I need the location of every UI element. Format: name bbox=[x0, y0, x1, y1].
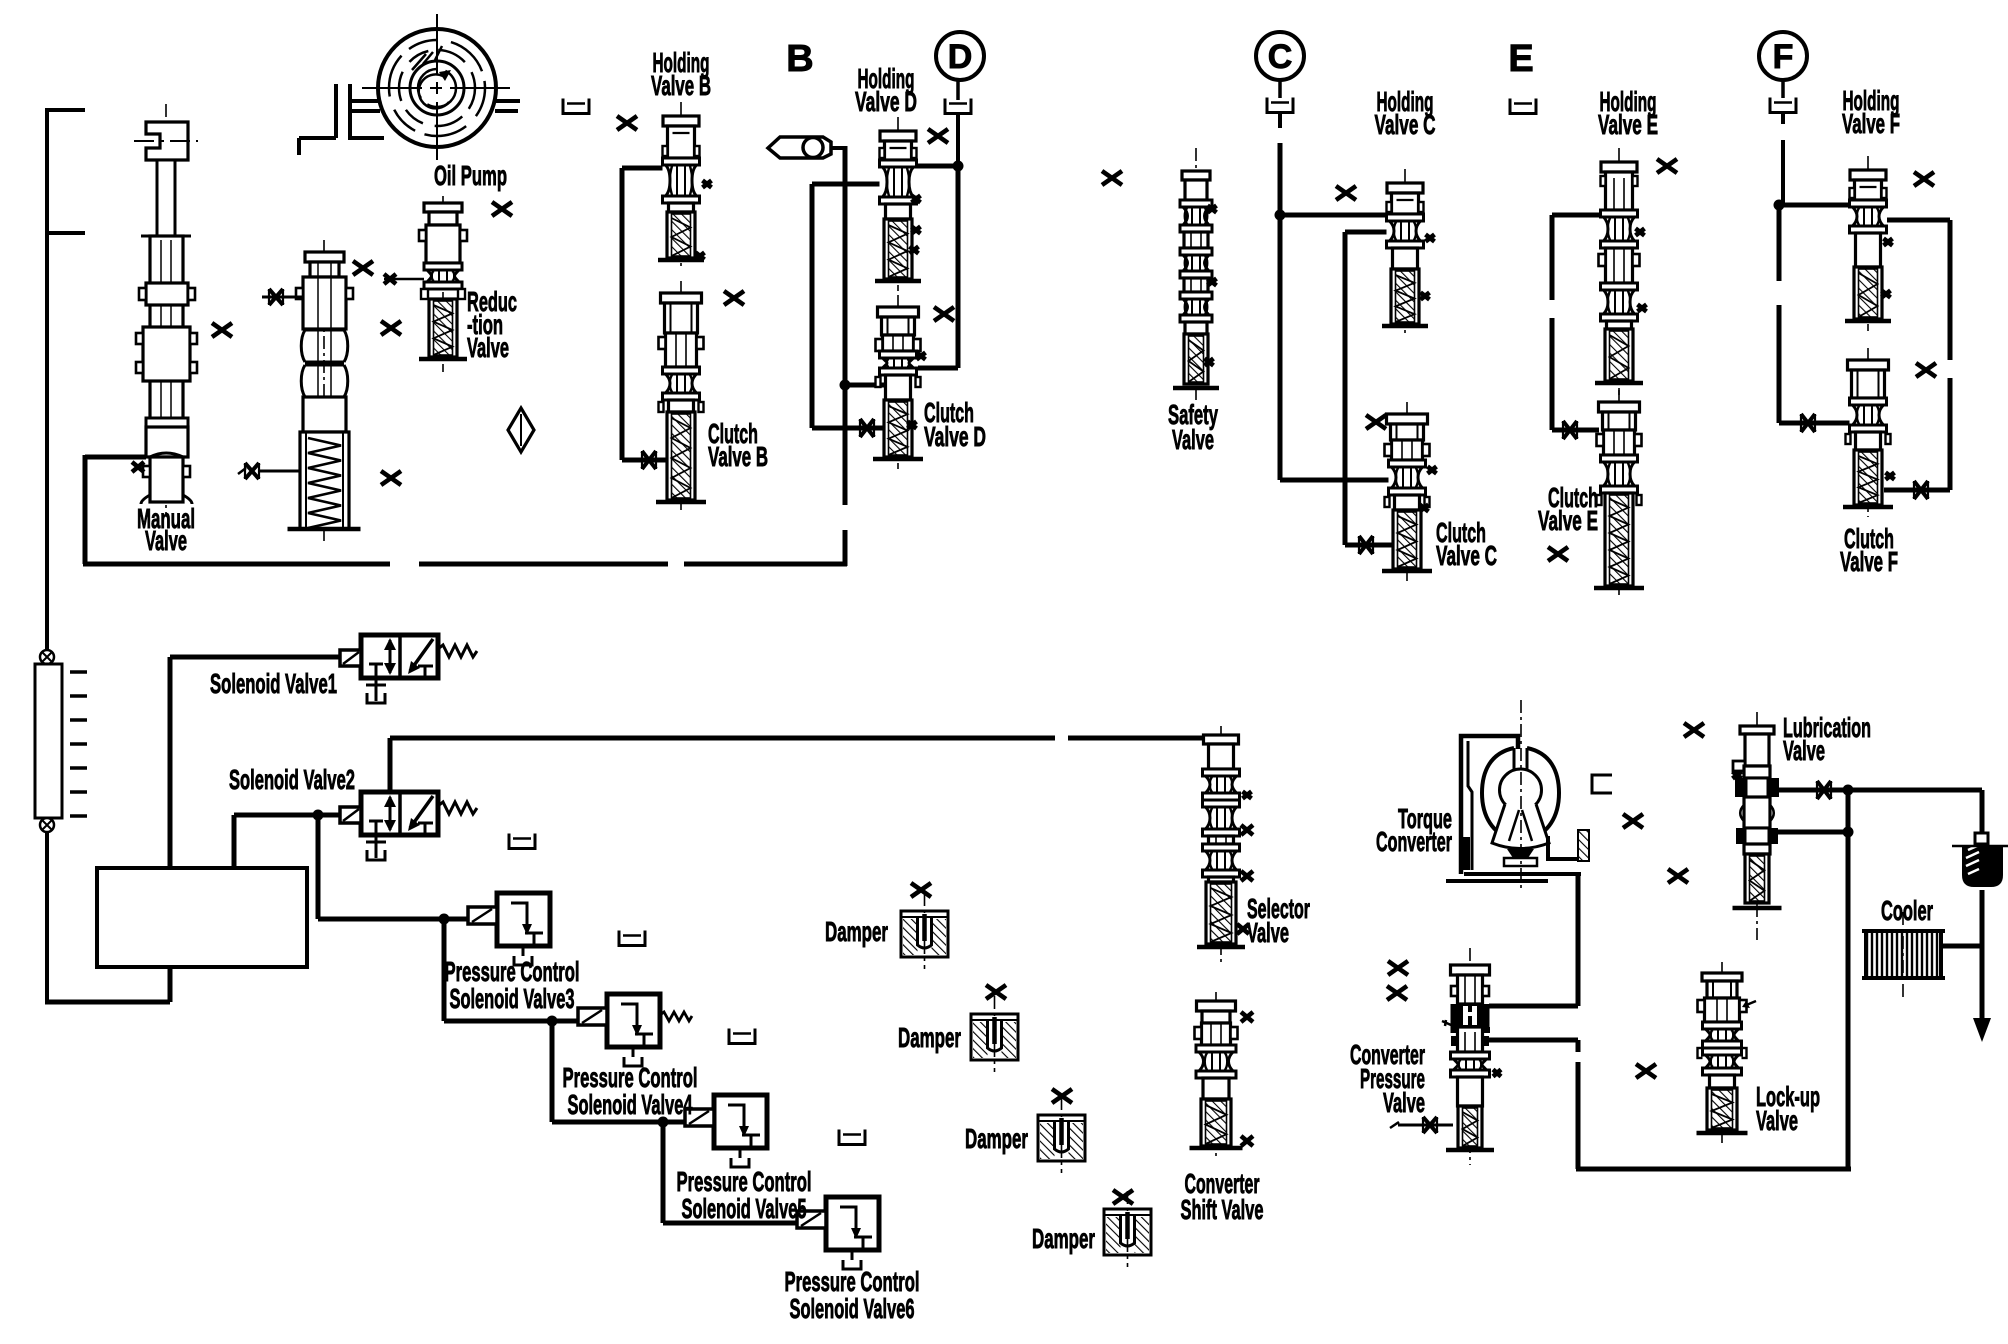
svg-text:Oil Pump: Oil Pump bbox=[434, 160, 507, 191]
svg-text:Valve C: Valve C bbox=[1436, 540, 1497, 571]
svg-text:Valve: Valve bbox=[1383, 1087, 1425, 1118]
svg-text:Damper: Damper bbox=[965, 1123, 1028, 1154]
svg-text:Valve C: Valve C bbox=[1375, 109, 1436, 140]
svg-text:Damper: Damper bbox=[898, 1022, 961, 1053]
svg-text:Valve: Valve bbox=[145, 525, 187, 556]
svg-text:Valve D: Valve D bbox=[855, 86, 917, 117]
svg-text:D: D bbox=[948, 38, 973, 76]
svg-text:Valve B: Valve B bbox=[708, 441, 768, 472]
svg-text:B: B bbox=[786, 38, 813, 80]
svg-text:F: F bbox=[1773, 38, 1794, 76]
svg-text:Valve E: Valve E bbox=[1538, 505, 1598, 536]
svg-text:Solenoid Valve6: Solenoid Valve6 bbox=[790, 1293, 915, 1324]
svg-text:Damper: Damper bbox=[825, 916, 888, 947]
svg-text:E: E bbox=[1508, 38, 1533, 80]
svg-text:Damper: Damper bbox=[1032, 1223, 1095, 1254]
svg-text:Valve F: Valve F bbox=[1842, 108, 1900, 139]
svg-text:Shift Valve: Shift Valve bbox=[1181, 1194, 1264, 1225]
svg-text:Valve: Valve bbox=[1247, 917, 1289, 948]
svg-text:Valve: Valve bbox=[1783, 735, 1825, 766]
svg-text:Valve: Valve bbox=[1756, 1105, 1798, 1136]
svg-text:Solenoid Valve5: Solenoid Valve5 bbox=[682, 1193, 807, 1224]
svg-text:Solenoid Valve2: Solenoid Valve2 bbox=[229, 764, 355, 795]
svg-text:Cooler: Cooler bbox=[1881, 895, 1933, 926]
svg-text:Valve F: Valve F bbox=[1840, 546, 1898, 577]
svg-text:Valve D: Valve D bbox=[924, 421, 986, 452]
svg-text:C: C bbox=[1268, 38, 1293, 76]
svg-text:Valve B: Valve B bbox=[651, 70, 711, 101]
svg-text:Converter: Converter bbox=[1376, 826, 1452, 857]
svg-text:Solenoid Valve1: Solenoid Valve1 bbox=[210, 668, 337, 699]
svg-text:Valve: Valve bbox=[467, 332, 509, 363]
svg-text:Solenoid Valve4: Solenoid Valve4 bbox=[568, 1089, 693, 1120]
svg-text:Solenoid Valve3: Solenoid Valve3 bbox=[450, 983, 575, 1014]
svg-text:Valve: Valve bbox=[1172, 424, 1214, 455]
svg-text:Valve E: Valve E bbox=[1598, 109, 1658, 140]
